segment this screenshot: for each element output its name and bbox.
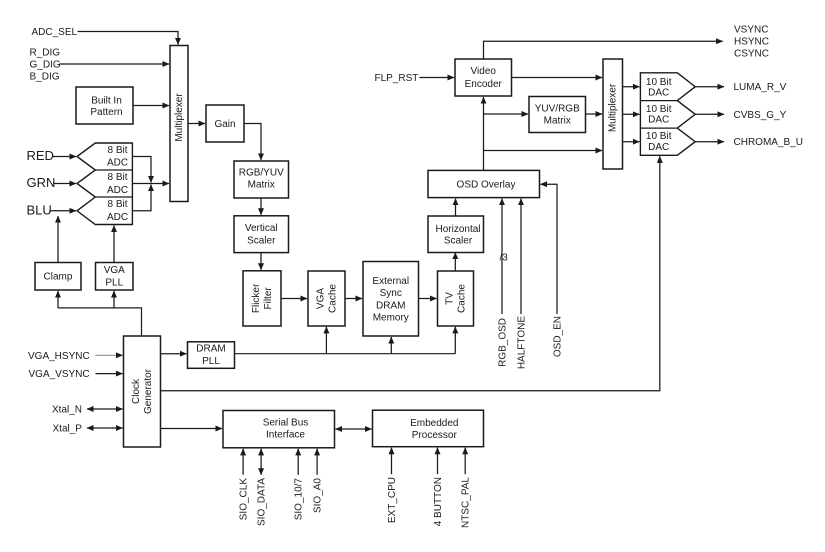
svg-text:Clamp: Clamp	[44, 272, 73, 283]
block OSD Overlay	[428, 170, 540, 197]
svg-text:Xtal_N: Xtal_N	[52, 405, 82, 416]
wire EXT_CPU	[391, 448, 393, 475]
svg-text:Matrix: Matrix	[248, 179, 275, 190]
wire multiplexer to DAC 1	[623, 86, 640, 88]
block Vertical Scaler	[234, 216, 289, 253]
svg-text:10 Bit: 10 Bit	[646, 131, 672, 142]
svg-text:ADC: ADC	[107, 185, 128, 196]
svg-text:Multiplexer: Multiplexer	[608, 83, 619, 132]
wire RGB/YUV Matrix to Vertical Scaler	[260, 198, 262, 215]
svg-text:ADC: ADC	[107, 212, 128, 223]
svg-text:ADC: ADC	[107, 158, 128, 169]
block Clamp	[35, 263, 81, 291]
svg-text:RGB/YUV: RGB/YUV	[239, 167, 284, 178]
svg-text:Sync: Sync	[380, 288, 402, 299]
wire riser to output multiplexer	[484, 150, 603, 152]
svg-text:VGA: VGA	[315, 288, 326, 309]
block RGB/YUV Matrix	[234, 161, 289, 198]
wire Serial Bus Interface to Embedded Processor	[336, 428, 372, 430]
wire OSD_EN to OSD Overlay	[541, 184, 558, 314]
block Horizontal Scaler	[428, 216, 484, 253]
wire RED to ADC	[52, 156, 76, 158]
wire SIO_DATA	[260, 449, 262, 475]
wire feed to Clamp	[57, 291, 59, 308]
multiplexer U1 (input mux)	[170, 46, 188, 202]
wire TV Cache to Horizontal Scaler	[454, 253, 456, 272]
svg-text:SIO_CLK: SIO_CLK	[239, 478, 250, 521]
svg-text:DRAM: DRAM	[196, 344, 225, 355]
wire multiplexer to DAC 2	[623, 113, 640, 115]
svg-text:Pattern: Pattern	[90, 107, 122, 118]
svg-text:Matrix: Matrix	[544, 116, 571, 127]
svg-text:TV: TV	[444, 292, 455, 305]
wire riser to YUV/RGB Matrix	[484, 113, 529, 115]
block DRAM PLL	[188, 342, 235, 369]
svg-text:Memory: Memory	[373, 313, 409, 324]
svg-text:Filter: Filter	[263, 287, 274, 310]
wire ADC1 output down to junction	[132, 157, 151, 183]
svg-text:R_DIG: R_DIG	[30, 48, 61, 59]
svg-text:EXT_CPU: EXT_CPU	[387, 477, 398, 523]
block TV Cache	[438, 271, 474, 326]
svg-text:DAC: DAC	[648, 115, 669, 126]
wire clock to VGA Cache	[325, 327, 327, 354]
svg-text:CHROMA_B_U: CHROMA_B_U	[734, 137, 803, 148]
svg-text:Horizontal: Horizontal	[435, 224, 480, 235]
wire GRN to ADC	[53, 183, 76, 185]
wire multiplexer to Gain	[188, 123, 205, 125]
wire DAC 2 output	[695, 113, 724, 115]
wire ADC2 output to multiplexer	[132, 183, 169, 185]
svg-text:10 Bit: 10 Bit	[646, 77, 672, 88]
svg-text:Serial Bus: Serial Bus	[263, 417, 309, 428]
svg-text:Vertical: Vertical	[245, 223, 278, 234]
svg-text:G_DIG: G_DIG	[30, 60, 61, 71]
svg-text:Scaler: Scaler	[247, 235, 276, 246]
wire Horizontal Scaler to OSD Overlay	[455, 199, 457, 216]
wire RGB_OSD to OSD Overlay	[501, 199, 503, 314]
wire Gain to RGB/YUV Matrix	[244, 124, 261, 161]
svg-text:Cache: Cache	[327, 284, 338, 313]
wire OSD Overlay riser to Video Encoder	[483, 97, 485, 170]
svg-text:Clock: Clock	[131, 378, 142, 404]
svg-text:VGA_HSYNC: VGA_HSYNC	[28, 351, 90, 362]
svg-text:SIO_A0: SIO_A0	[313, 478, 324, 513]
wire feed to VGA PLL	[113, 291, 115, 308]
block VGA PLL	[96, 263, 134, 291]
wire Video Encoder to output multiplexer	[512, 77, 603, 79]
svg-text:External: External	[372, 276, 409, 287]
wire ADC_SEL to multiplexer	[78, 32, 179, 45]
wire VGA Cache to DRAM Memory	[345, 298, 362, 300]
wire HALFTONE to OSD Overlay	[520, 199, 522, 314]
svg-text:YUV/RGB: YUV/RGB	[535, 103, 580, 114]
svg-text:BLU: BLU	[27, 202, 52, 217]
svg-text:NTSC_PAL: NTSC_PAL	[461, 477, 472, 528]
block Embedded Processor	[373, 410, 484, 447]
wire DAC 3 output	[695, 141, 724, 143]
ADC separator 2	[95, 196, 132, 198]
block Gain	[206, 105, 244, 142]
svg-text:Encoder: Encoder	[465, 79, 503, 90]
wire YUV/RGB Matrix to output multiplexer	[586, 113, 603, 115]
svg-text:OSD Overlay: OSD Overlay	[457, 179, 516, 190]
wire sync output	[484, 41, 723, 59]
svg-text:Built In: Built In	[91, 96, 122, 107]
svg-text:PLL: PLL	[202, 356, 220, 367]
svg-text:Multiplexer: Multiplexer	[174, 93, 185, 142]
svg-text:8 Bit: 8 Bit	[107, 199, 127, 210]
svg-text:PLL: PLL	[105, 278, 123, 289]
svg-text:Generator: Generator	[143, 368, 154, 414]
svg-text:Interface: Interface	[266, 430, 305, 441]
multiplexer U2 (output mux)	[603, 59, 623, 169]
wire DRAM Memory to TV Cache	[419, 298, 437, 300]
svg-text:Scaler: Scaler	[444, 236, 473, 247]
wire VGA_HSYNC	[96, 354, 123, 356]
block External Sync DRAM Memory	[363, 262, 419, 337]
wire DRAM PLL clock line	[235, 353, 456, 355]
svg-text:VSYNC: VSYNC	[734, 24, 768, 35]
svg-text:/3: /3	[500, 253, 509, 264]
block Video Encoder	[455, 59, 512, 96]
wire VGA_VSYNC	[96, 373, 123, 375]
ADC separator 1	[95, 169, 132, 171]
block Flicker Filter	[243, 271, 281, 326]
wire SIO_10/7	[297, 449, 299, 475]
svg-text:GRN: GRN	[27, 175, 56, 190]
svg-text:ADC_SEL: ADC_SEL	[32, 27, 78, 38]
svg-text:Cache: Cache	[456, 284, 467, 313]
block Clock Generator	[124, 336, 161, 447]
svg-text:LUMA_R_V: LUMA_R_V	[734, 82, 787, 93]
wire ADC3 output up to junction	[132, 185, 151, 211]
ADC stack outline (three 8 Bit ADC converters)	[77, 143, 132, 225]
svg-text:SIO_DATA: SIO_DATA	[257, 478, 268, 526]
block VGA Cache	[308, 271, 345, 326]
wire FLP_RST to Video Encoder	[420, 77, 455, 79]
svg-text:Video: Video	[471, 66, 497, 77]
svg-text:Flicker: Flicker	[251, 283, 262, 313]
svg-text:CSYNC: CSYNC	[734, 48, 769, 59]
svg-text:SIO_10/7: SIO_10/7	[294, 478, 305, 521]
svg-text:DRAM: DRAM	[376, 300, 405, 311]
svg-text:DAC: DAC	[648, 87, 669, 98]
DAC separator 2	[640, 127, 677, 129]
wire Clock Generator to DAC (long)	[161, 156, 660, 390]
wire G_DIG bus to multiplexer	[60, 63, 170, 65]
wire SIO_A0	[316, 449, 318, 475]
block YUV/RGB Matrix	[529, 97, 586, 133]
svg-text:Processor: Processor	[412, 430, 458, 441]
svg-text:OSD_EN: OSD_EN	[553, 316, 564, 357]
wire Xtal_N bidirectional	[87, 408, 123, 410]
svg-text:RED: RED	[27, 148, 54, 163]
wire 4 BUTTON	[437, 448, 439, 475]
svg-text:HALFTONE: HALFTONE	[517, 316, 528, 369]
wire Clock Generator to Serial Bus Interface	[161, 428, 223, 430]
wire Clock Generator to DRAM PLL	[161, 353, 187, 355]
svg-text:8 Bit: 8 Bit	[107, 172, 127, 183]
svg-text:10 Bit: 10 Bit	[646, 104, 672, 115]
wire Flicker Filter to VGA Cache	[281, 298, 307, 300]
wire multiplexer to DAC 3	[623, 141, 640, 143]
wire Xtal_P bidirectional	[87, 427, 123, 429]
svg-text:B_DIG: B_DIG	[30, 72, 60, 83]
svg-text:RGB_OSD: RGB_OSD	[498, 318, 509, 367]
wire clock feed riser	[58, 308, 142, 336]
wire clock to TV Cache	[454, 327, 456, 354]
wire VGA PLL up to ADC	[113, 226, 115, 263]
svg-text:Xtal_P: Xtal_P	[53, 424, 83, 435]
svg-text:8 Bit: 8 Bit	[107, 145, 127, 156]
wire DAC 1 output	[695, 86, 724, 88]
svg-text:DAC: DAC	[648, 142, 669, 153]
svg-text:Embedded: Embedded	[410, 418, 458, 429]
wire Vertical Scaler to Flicker Filter	[260, 253, 262, 270]
wire SIO_CLK	[242, 449, 244, 475]
wire NTSC_PAL	[464, 448, 466, 475]
wire Built In Pattern to multiplexer	[133, 105, 169, 107]
wire clock to DRAM Memory	[390, 337, 392, 354]
wire Clamp up to BLU	[57, 216, 59, 263]
svg-text:VGA_VSYNC: VGA_VSYNC	[29, 369, 90, 380]
DAC separator 1	[640, 100, 677, 102]
svg-text:HSYNC: HSYNC	[734, 36, 769, 47]
DAC stack outline (three 10 Bit DACs)	[640, 73, 695, 156]
svg-text:CVBS_G_Y: CVBS_G_Y	[734, 110, 787, 121]
block Built In Pattern	[76, 87, 133, 124]
wire BLU to ADC	[50, 210, 76, 212]
svg-text:FLP_RST: FLP_RST	[375, 73, 419, 84]
svg-text:VGA: VGA	[104, 265, 125, 276]
svg-text:4 BUTTON: 4 BUTTON	[433, 477, 444, 526]
svg-text:Gain: Gain	[214, 119, 235, 130]
block Serial Bus Interface	[223, 411, 335, 448]
